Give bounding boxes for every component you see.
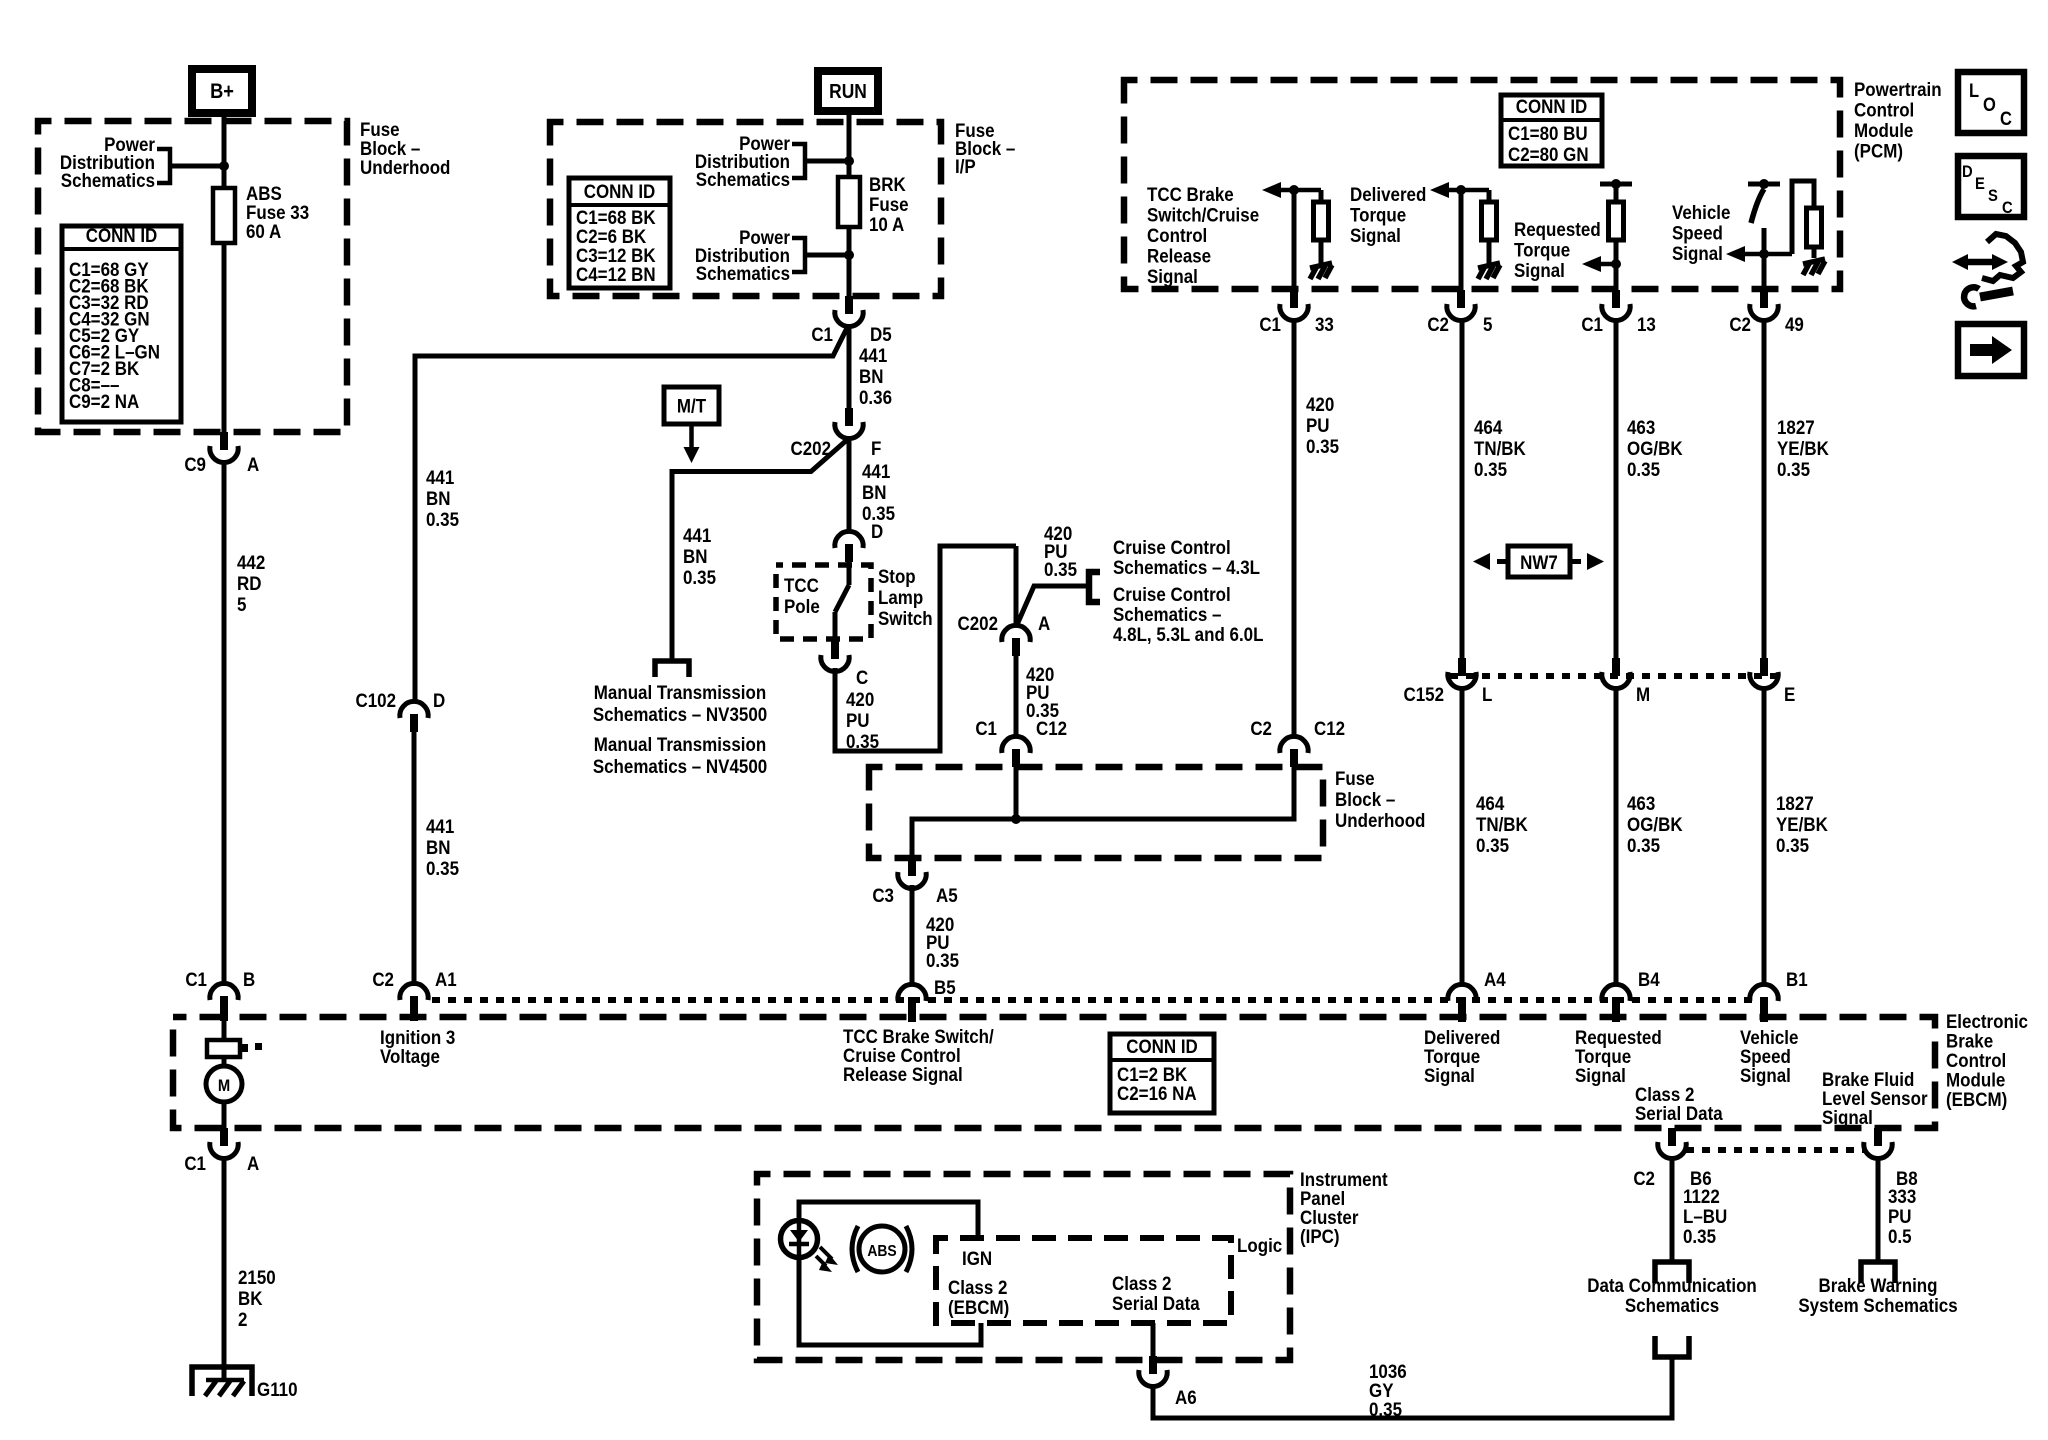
svg-text:Torque: Torque (1514, 238, 1570, 260)
svg-text:Serial Data: Serial Data (1112, 1292, 1200, 1314)
svg-text:441: 441 (859, 344, 887, 366)
wire switch to C (833, 612, 838, 641)
dotted line EBCM connector row (432, 997, 1776, 1003)
wire bracket to B+ feed (170, 164, 224, 169)
PCM text requested torque (1514, 218, 1601, 281)
svg-text:CONN ID: CONN ID (86, 224, 158, 246)
resistor PCM circuit2 (1482, 202, 1497, 240)
off-page reference data communication (1655, 1262, 1689, 1283)
connector C2 pin 49 (1750, 290, 1778, 321)
svg-text:B: B (243, 968, 255, 990)
reference text data communication (1587, 1274, 1757, 1316)
wire 1827 YE BK upper (1762, 318, 1767, 658)
label B5 (934, 976, 956, 998)
svg-text:S: S (1988, 187, 1998, 205)
labels EBCM top row (1484, 968, 1808, 990)
RUN power terminal box (818, 71, 878, 111)
wire label 1827 YE/BK upper (1777, 416, 1830, 480)
svg-text:E: E (1975, 175, 1985, 193)
svg-text:420: 420 (1306, 393, 1334, 415)
svg-text:M: M (218, 1077, 230, 1095)
svg-text:0.35: 0.35 (1627, 458, 1660, 480)
wire arrow to resistor 1 (1319, 190, 1324, 203)
svg-text:Vehicle: Vehicle (1672, 201, 1730, 223)
TCC Pole label (784, 574, 820, 617)
svg-text:BK: BK (238, 1287, 263, 1309)
B+ power terminal box (192, 69, 252, 113)
ABS indicator LED (781, 1221, 839, 1273)
svg-text:Schematics – NV3500: Schematics – NV3500 (593, 703, 767, 725)
wire arrow to resistor 2 (1487, 190, 1492, 203)
wire circuit2 to C2 5 (1459, 190, 1464, 290)
svg-text:Stop: Stop (878, 565, 916, 587)
svg-text:Powertrain: Powertrain (1854, 78, 1942, 100)
svg-text:C2: C2 (1250, 717, 1272, 739)
svg-text:0.35: 0.35 (1474, 458, 1507, 480)
connector C202 pin F (835, 408, 863, 439)
wire D5 to C202 F (847, 324, 852, 408)
labels C152 row (1403, 683, 1795, 705)
connector C1 pin A (210, 1128, 238, 1159)
Power Distribution Schematics reference (underhood) (60, 133, 155, 191)
svg-text:441: 441 (683, 524, 711, 546)
svg-text:Control: Control (1147, 224, 1207, 246)
connector C1 pin C12 (1002, 736, 1030, 767)
wire to C202 A (1014, 546, 1019, 627)
svg-text:Schematics: Schematics (1625, 1294, 1719, 1316)
Power Distribution Schematics reference (IP lower) (695, 226, 790, 284)
svg-text:Underhood: Underhood (1335, 809, 1425, 831)
IPC label (1300, 1168, 1388, 1247)
wire label 1036 GY 0.35 (1369, 1360, 1407, 1420)
junction dot power distribution tap (219, 161, 229, 171)
arrow requested torque (1582, 256, 1616, 272)
wire label 464 TN/BK lower (1476, 792, 1529, 856)
label A6 (1175, 1386, 1197, 1408)
svg-text:Pole: Pole (784, 595, 820, 617)
connector C3 pin A5 (898, 858, 926, 889)
stub resistor2 to ground (1487, 240, 1492, 264)
svg-text:BN: BN (426, 487, 450, 509)
svg-text:5: 5 (237, 593, 246, 615)
svg-text:49: 49 (1785, 313, 1804, 335)
Power Distribution Schematics reference (IP upper) (695, 132, 790, 190)
connector A4 EBCM (1448, 984, 1476, 1022)
svg-text:442: 442 (237, 551, 265, 573)
arrow vehicle speed (1726, 246, 1792, 262)
Powertrain Control Module box (1124, 80, 1840, 289)
EBCM pump motor M (206, 1066, 242, 1102)
wire label 442 RD 5 (237, 551, 265, 615)
wire class2 serial data to A6 (1151, 1323, 1156, 1356)
wire A to C1 C12 (1014, 656, 1019, 738)
svg-text:Fuse: Fuse (1335, 767, 1375, 789)
svg-text:0.35: 0.35 (426, 508, 459, 530)
wire label 463 OG/BK upper (1627, 416, 1683, 480)
EBCM internal fuse symbol (207, 1040, 262, 1057)
dotted line C152 connector row (1450, 673, 1776, 679)
dot T-bar circuit3 (1611, 179, 1621, 189)
fuse ABS label (246, 182, 309, 242)
connector B8 (1864, 1128, 1892, 1159)
labels C102 D (355, 689, 445, 711)
svg-text:C2: C2 (1729, 313, 1751, 335)
wire bracket lower to RUN feed (805, 253, 849, 258)
svg-text:IGN: IGN (962, 1247, 992, 1269)
svg-text:E: E (1784, 683, 1795, 705)
labels C1 D5 (811, 323, 891, 345)
svg-text:C2: C2 (1427, 313, 1449, 335)
wire 1036 GY (1153, 1357, 1672, 1418)
svg-text:Switch/Cruise: Switch/Cruise (1147, 203, 1259, 225)
svg-text:0.35: 0.35 (426, 857, 459, 879)
svg-text:C1: C1 (1581, 313, 1603, 335)
dotted line B6 B8 row (1686, 1147, 1864, 1153)
svg-text:Release: Release (1147, 244, 1211, 266)
junction dot circuit4 (1759, 249, 1769, 259)
svg-text:Schematics – NV4500: Schematics – NV4500 (593, 755, 767, 777)
wire B+ to C9 (222, 113, 227, 432)
labels C202 F (790, 437, 881, 459)
svg-text:441: 441 (426, 466, 454, 488)
svg-text:Schematics: Schematics (696, 168, 790, 190)
stub resistor1 to ground (1319, 240, 1324, 264)
junction dot inside fuse block (1011, 814, 1021, 824)
svg-text:I/P: I/P (955, 155, 976, 177)
IPC text class 2 serial data (1112, 1272, 1200, 1314)
wire label 441 BN 0.35 center (862, 460, 895, 524)
labels C2 A1 (372, 968, 456, 990)
svg-text:33: 33 (1315, 313, 1334, 335)
svg-text:Serial Data: Serial Data (1635, 1102, 1723, 1124)
CONN ID table EBCM (1110, 1034, 1214, 1113)
svg-text:B4: B4 (1638, 968, 1660, 990)
wire label 420 PU 0.35 below C (846, 688, 879, 752)
svg-text:C1: C1 (975, 717, 997, 739)
svg-text:4.8L, 5.3L and 6.0L: 4.8L, 5.3L and 6.0L (1113, 623, 1263, 645)
svg-text:L: L (1482, 683, 1492, 705)
svg-text:PU: PU (846, 709, 870, 731)
labels C202 A (957, 612, 1050, 634)
svg-text:Module: Module (1854, 119, 1913, 141)
svg-text:Release Signal: Release Signal (843, 1063, 963, 1085)
EBCM text brake fluid level sensor (1822, 1068, 1928, 1128)
Fuse Block - Underhood box label (360, 118, 450, 178)
svg-text:M: M (1636, 683, 1650, 705)
svg-text:463: 463 (1627, 416, 1655, 438)
svg-text:BN: BN (859, 365, 883, 387)
wire branch F to manual transmission (672, 439, 848, 661)
labels C1 C12 (975, 717, 1067, 739)
svg-text:PU: PU (1306, 414, 1330, 436)
svg-text:F: F (871, 437, 881, 459)
svg-text:RD: RD (237, 572, 261, 594)
svg-text:(EBCM): (EBCM) (1946, 1088, 2007, 1110)
svg-text:Logic: Logic (1237, 1234, 1282, 1256)
Fuse Block - I/P box label (955, 119, 1015, 177)
svg-text:Signal: Signal (1740, 1064, 1791, 1086)
reference text manual transmission NV3500 (593, 681, 767, 725)
svg-text:C9=2 NA: C9=2 NA (69, 390, 139, 412)
svg-text:Lamp: Lamp (878, 586, 923, 608)
wire label 463 OG/BK lower (1627, 792, 1683, 856)
svg-text:0.35: 0.35 (1476, 834, 1509, 856)
label Logic (1237, 1234, 1282, 1256)
off-page reference data communication lower (1655, 1336, 1689, 1357)
connector C2 pin C12 (1280, 736, 1308, 767)
wire 2150 BK 2 (222, 1156, 227, 1378)
TCC Pole dashed box (776, 565, 871, 639)
svg-text:Signal: Signal (1514, 259, 1565, 281)
IPC text class 2 EBCM (948, 1276, 1009, 1318)
svg-text:ABS: ABS (867, 1242, 896, 1260)
EBCM text vehicle speed (1740, 1026, 1798, 1086)
svg-text:C2: C2 (372, 968, 394, 990)
branch diagonal to cruise control reference (1016, 586, 1086, 627)
wire label 420 PU 0.35 cruise (1044, 522, 1077, 580)
svg-text:Manual Transmission: Manual Transmission (594, 681, 766, 703)
svg-text:1827: 1827 (1776, 792, 1814, 814)
bracket cruise control references (1089, 572, 1100, 602)
bracket to power distribution (underhood) (157, 149, 170, 183)
wire label 441 BN 0.35 left lower (426, 815, 459, 879)
svg-text:Signal: Signal (1424, 1064, 1475, 1086)
svg-text:13: 13 (1637, 313, 1656, 335)
svg-text:0.35: 0.35 (1627, 834, 1660, 856)
svg-text:1827: 1827 (1777, 416, 1815, 438)
svg-text:C12: C12 (1036, 717, 1067, 739)
connector A6 (1139, 1356, 1167, 1387)
ground PCM circuit4 (1803, 259, 1825, 275)
connector C1 pin 33 (1280, 290, 1308, 321)
svg-text:C202: C202 (790, 437, 831, 459)
label G110 (257, 1378, 298, 1400)
EBCM text requested torque (1575, 1026, 1662, 1086)
svg-text:System Schematics: System Schematics (1798, 1294, 1957, 1316)
connector C2 pin 5 (1447, 290, 1475, 321)
wire branch D5 to ignition3 run (415, 326, 848, 703)
svg-text:C102: C102 (355, 689, 396, 711)
CONN ID table IP fuse block (569, 178, 670, 288)
svg-text:C2=80 GN: C2=80 GN (1508, 143, 1589, 165)
svg-text:D: D (871, 520, 883, 542)
junction dot upper tap (844, 156, 854, 166)
connector C1 pin 13 (1602, 290, 1630, 321)
svg-text:C3: C3 (872, 884, 894, 906)
svg-text:0.35: 0.35 (683, 566, 716, 588)
svg-text:A: A (247, 1152, 259, 1174)
svg-text:CONN ID: CONN ID (584, 180, 656, 202)
svg-text:(EBCM): (EBCM) (948, 1296, 1009, 1318)
Fuse Block - I/P box (550, 122, 941, 296)
svg-text:B+: B+ (210, 80, 234, 103)
resistor PCM circuit4 (1807, 208, 1822, 247)
wire circuit4 to C2 49 (1762, 228, 1767, 290)
wire label 1827 YE/BK lower (1776, 792, 1829, 856)
CONN ID table underhood fuse block (62, 224, 181, 422)
Instrument Panel Cluster box (757, 1174, 1290, 1360)
M/T manual transmission flag box (664, 387, 719, 424)
svg-text:G110: G110 (257, 1378, 298, 1400)
Fuse Block - Underhood second label (1335, 767, 1425, 831)
svg-text:CONN ID: CONN ID (1516, 95, 1588, 117)
svg-text:Switch: Switch (878, 607, 933, 629)
svg-text:Manual Transmission: Manual Transmission (594, 733, 766, 755)
svg-text:Signal: Signal (1350, 224, 1401, 246)
wire circuit4 branch to resistor (1792, 181, 1814, 254)
icon double arrow with wrench (1952, 234, 2023, 306)
svg-text:C12: C12 (1314, 717, 1345, 739)
svg-text:(PCM): (PCM) (1854, 139, 1903, 161)
EBCM text TCC brake switch release (843, 1025, 994, 1085)
wire label 2150 BK 2 (238, 1266, 276, 1330)
junction dot circuit2 (1456, 185, 1466, 195)
svg-text:0.35: 0.35 (1044, 558, 1077, 580)
wire 333 PU (1876, 1156, 1881, 1262)
bracket power distribution upper (792, 144, 805, 178)
svg-text:C202: C202 (957, 612, 998, 634)
wire label 420 PU 0.35 to B5 (926, 913, 959, 971)
svg-text:Signal: Signal (1672, 242, 1723, 264)
svg-text:TN/BK: TN/BK (1474, 437, 1527, 459)
fuse ABS Fuse 33 60A (213, 188, 235, 243)
svg-text:RUN: RUN (829, 80, 867, 102)
wire label 420 PU 0.35 below A (1026, 663, 1059, 721)
off-page reference brake warning (1861, 1262, 1895, 1283)
svg-text:Voltage: Voltage (380, 1045, 440, 1067)
icon box DESC (1958, 156, 2024, 217)
fuse BRK Fuse 10A (838, 177, 860, 227)
svg-text:Signal: Signal (1147, 265, 1198, 287)
wire label 420 PU 0.35 right (1306, 393, 1339, 457)
EBCM text class 2 serial data (1635, 1083, 1723, 1124)
connector C2 pin B6 (1658, 1128, 1686, 1159)
svg-text:C152: C152 (1403, 683, 1444, 705)
svg-text:C1: C1 (185, 968, 207, 990)
wire 1827 YE BK lower (1762, 686, 1767, 986)
wire tbar to resistor3 (1614, 184, 1619, 202)
fuse BRK label (869, 173, 909, 235)
svg-text:OG/BK: OG/BK (1627, 437, 1683, 459)
dot T-bar circuit4 (1759, 179, 1769, 189)
svg-text:A4: A4 (1484, 968, 1506, 990)
wire 441 BN to A1 (412, 732, 417, 986)
junction dot circuit3 (1611, 259, 1621, 269)
svg-text:Torque: Torque (1350, 203, 1406, 225)
svg-text:C9: C9 (184, 453, 206, 475)
svg-text:Requested: Requested (1514, 218, 1601, 240)
svg-text:C2=16 NA: C2=16 NA (1117, 1082, 1197, 1104)
labels C3 A5 (872, 884, 957, 906)
wire 420 PU from C (835, 546, 1016, 751)
labels PCM connector row (1259, 313, 1804, 335)
wire RUN to C1 D5 (847, 111, 852, 296)
CONN ID table PCM (1501, 95, 1602, 166)
wire 442 RD 5 (222, 460, 227, 986)
svg-text:D: D (433, 689, 445, 711)
svg-text:C1: C1 (184, 1152, 206, 1174)
wire 463 OG BK upper (1614, 318, 1619, 658)
ground PCM circuit2 (1478, 263, 1500, 279)
svg-text:Delivered: Delivered (1350, 183, 1426, 205)
svg-text:OG/BK: OG/BK (1627, 813, 1683, 835)
svg-text:0.35: 0.35 (1306, 435, 1339, 457)
wire B into EBCM fuse (222, 1012, 227, 1040)
Electronic Brake Control Module box (173, 1017, 1935, 1128)
label IGN (962, 1247, 992, 1269)
svg-text:441: 441 (426, 815, 454, 837)
connector C102 pin D (400, 701, 428, 732)
wire resistor3 down to C1 13 (1614, 240, 1619, 290)
icon box right arrow (1958, 324, 2024, 376)
svg-text:C4=12 BN: C4=12 BN (576, 263, 656, 285)
NW7 harness reference flag (1473, 546, 1604, 577)
arrow delivered torque (1430, 182, 1489, 198)
svg-text:Signal: Signal (1822, 1106, 1873, 1128)
PCM label (1854, 78, 1942, 162)
junction dot lower tap (844, 250, 854, 260)
connector B1 EBCM (1750, 984, 1778, 1022)
connector B4 EBCM (1602, 984, 1630, 1022)
labels C1 A (184, 1152, 259, 1174)
svg-text:2150: 2150 (238, 1266, 276, 1288)
PCM text delivered torque (1350, 183, 1426, 246)
svg-text:Block –: Block – (1335, 788, 1395, 810)
connector C1 pin B (210, 983, 238, 1021)
svg-text:C1=80 BU: C1=80 BU (1508, 122, 1588, 144)
EBCM text delivered torque (1424, 1026, 1500, 1086)
wire label 441 BN 0.35 MT branch (683, 524, 716, 588)
arrow from M/T box (684, 424, 700, 463)
switch blade stop lamp switch (835, 585, 849, 612)
svg-text:A5: A5 (936, 884, 958, 906)
svg-text:YE/BK: YE/BK (1776, 813, 1829, 835)
svg-text:D5: D5 (870, 323, 892, 345)
switch blade vehicle speed (1751, 189, 1764, 223)
svg-text:0.35: 0.35 (1369, 1398, 1402, 1420)
wire label 333 PU 0.5 (1888, 1185, 1916, 1247)
connector C1 pin D5 (835, 296, 863, 327)
svg-text:C: C (2002, 199, 2013, 217)
svg-text:TCC Brake: TCC Brake (1147, 183, 1234, 205)
svg-text:C: C (856, 666, 868, 688)
svg-text:M/T: M/T (677, 394, 706, 416)
resistor PCM circuit1 (1314, 202, 1329, 240)
connector C stop lamp switch out (821, 641, 849, 672)
IPC logic box (936, 1238, 1231, 1323)
svg-text:0.35: 0.35 (1777, 458, 1810, 480)
svg-text:Control: Control (1854, 98, 1914, 120)
svg-text:Underhood: Underhood (360, 156, 450, 178)
svg-text:A1: A1 (435, 968, 457, 990)
Stop Lamp Switch label (878, 565, 933, 629)
wire D into switch (847, 562, 852, 585)
svg-text:Schematics – 4.3L: Schematics – 4.3L (1113, 556, 1260, 578)
wire motor to C1 A (222, 1102, 227, 1128)
labels C1 B (185, 968, 255, 990)
svg-text:B1: B1 (1786, 968, 1808, 990)
connector C152 pin E (1750, 658, 1778, 689)
connector D stop lamp switch (835, 531, 863, 562)
svg-text:Schematics: Schematics (61, 169, 155, 191)
PCM text TCC brake switch cruise release (1147, 183, 1259, 287)
svg-text:D: D (1962, 163, 1973, 181)
wire LED bottom loop (799, 1258, 981, 1345)
EBCM label (1946, 1010, 2028, 1110)
svg-text:0.35: 0.35 (1683, 1225, 1716, 1247)
wire 464 TN BK lower (1460, 686, 1465, 986)
svg-text:BN: BN (683, 545, 707, 567)
